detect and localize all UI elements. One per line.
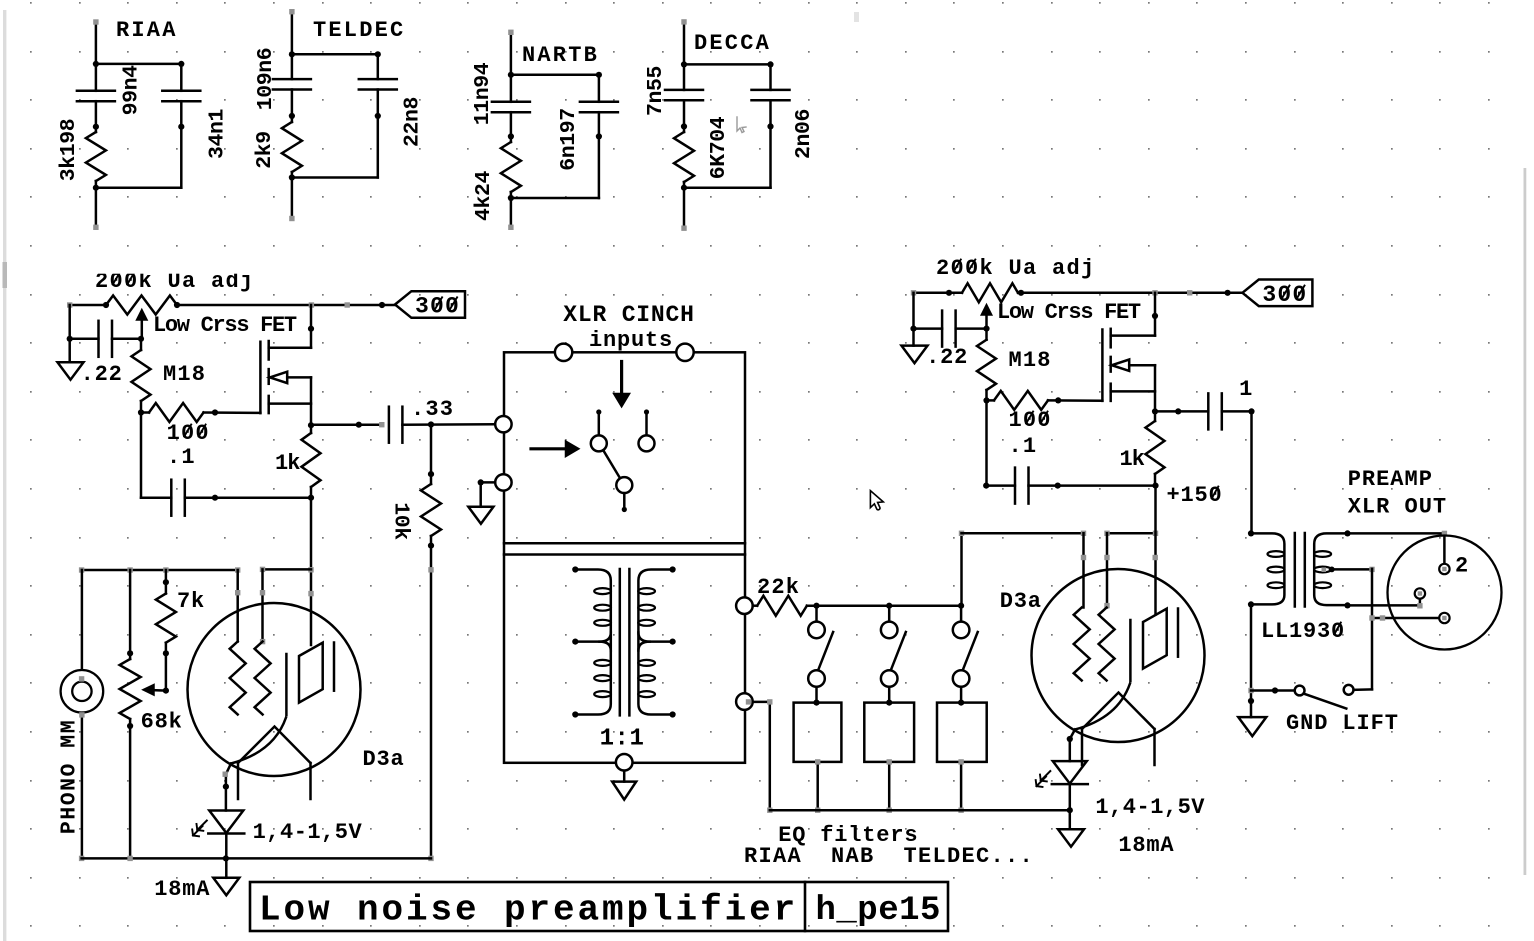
mouse cursor [870, 491, 883, 510]
wire: 22k to switch bus [807, 604, 962, 607]
resistor TELDEC (left branch) [282, 122, 302, 172]
wire: DECCA right branch down [769, 126, 772, 187]
wire: cathode lead to LED (left) [226, 764, 231, 811]
terminal right out hot [736, 597, 753, 614]
wire: EQ filter 1 to bottom bus [816, 762, 819, 810]
capacitor RIAA series (left branch) [77, 90, 115, 93]
svg-text:1,4-1,5V: 1,4-1,5V [253, 820, 363, 845]
wire: rail corner down to .22 (left) [68, 305, 71, 339]
switch common contact [616, 477, 632, 493]
wire: output column down to LL1930 [1250, 411, 1253, 533]
selector right arrow [531, 447, 568, 450]
svg-text:1,4-1,5V: 1,4-1,5V [1095, 795, 1205, 820]
switch common stub [623, 493, 626, 509]
ground (input box) [468, 507, 493, 524]
svg-text:10k: 10k [389, 502, 413, 540]
wire: enclosure bottom rail [82, 857, 431, 860]
node TELDEC bottom junction [289, 174, 295, 180]
wire: left pin2 to ground [481, 481, 496, 484]
wire: RIAA right branch down [180, 127, 183, 188]
wire: switch bus riser to grid bus [960, 533, 963, 605]
svg-text:D3a: D3a [1000, 589, 1042, 614]
wire: enclosure left edge / PHONO column upper [81, 570, 84, 670]
capacitor NARTB parallel (right branch) [580, 101, 618, 104]
capacitor TELDEC parallel (right branch) [359, 78, 397, 81]
transistor FET (right, Low Crss) [1101, 330, 1104, 401]
resistor NARTB (left branch) [501, 142, 521, 192]
svg-text:.22: .22 [81, 362, 123, 387]
svg-text:GND LIFT: GND LIFT [1286, 711, 1399, 736]
pot wiper arrow 68k [146, 689, 166, 692]
svg-text:M18: M18 [163, 362, 206, 387]
wire: gnd lift left link [1251, 689, 1295, 692]
svg-text:RIAA: RIAA [116, 18, 178, 43]
wire: enclosure top edge segment B (g3 to anode) [263, 568, 312, 571]
node DECCA bottom junction [681, 185, 687, 191]
svg-text:Low Crss FET: Low Crss FET [997, 300, 1141, 325]
pot wiper arrow (left) [141, 317, 144, 339]
title box [250, 882, 948, 931]
transformer LL1930 left winding [1251, 533, 1284, 604]
capacitor DECCA parallel (right branch) [752, 89, 790, 92]
vacuum tube D3a (right) [1032, 569, 1205, 742]
wire: LL1930 tap to gnd-lift column [1330, 568, 1372, 571]
node 1k bottom / anode (left) [308, 495, 314, 501]
svg-text:1k: 1k [275, 451, 300, 476]
wire: source to .33 cap (left) [311, 423, 382, 426]
box EQ filter 3 [937, 703, 987, 762]
wire: wiper to 7k bottom [165, 653, 168, 690]
svg-text:2n06: 2n06 [792, 109, 816, 159]
svg-text:4k24: 4k24 [472, 171, 496, 222]
svg-text:Low noise preamplifier: Low noise preamplifier [259, 890, 798, 931]
vacuum tube D3a (left) [188, 603, 361, 776]
transformer LL1930 right winding [1314, 533, 1347, 605]
potentiometer 200k (right) [962, 283, 1018, 302]
svg-text:34n1: 34n1 [206, 109, 230, 159]
wire: NARTB output stub [510, 198, 513, 227]
svg-text:22n8: 22n8 [401, 97, 425, 147]
node TELDEC top junction [289, 51, 295, 57]
wire: LL1930 bottom lead to XLR pin3 [1348, 604, 1420, 607]
pin 3 (XLR out) [1415, 588, 1425, 598]
wire: rail corner down to .22 (right) [912, 293, 915, 329]
terminal top-left (XLR) [555, 344, 572, 361]
wire: RIAA top link [96, 63, 181, 66]
wire: grid g1 lead (left tube) [236, 570, 239, 642]
wire: TELDEC output stub [291, 178, 294, 219]
capacitor TELDEC series (left branch) [273, 78, 311, 81]
wire: M18 bottom to .1 cap (right) [985, 400, 988, 485]
transformer LL1930 core [1294, 533, 1297, 607]
svg-text:.1: .1 [1009, 434, 1038, 459]
svg-text:M18: M18 [1009, 348, 1052, 373]
capacitor .22 (right) [941, 311, 944, 347]
wire: 7k column upper [165, 570, 168, 594]
transformer 1:1 core [619, 569, 622, 715]
svg-text:3k198: 3k198 [57, 119, 81, 182]
switch GND LIFT right contact [1344, 685, 1354, 695]
transistor FET (left, Low Crss) [259, 342, 262, 413]
capacitor .1 (right) [1014, 468, 1017, 504]
wire: RIAA input stub [95, 22, 98, 64]
wire: gnd-lift column corner [1354, 688, 1372, 691]
capacitor .33 (left) [388, 407, 391, 443]
wire: 68k bottom to bottom rail [129, 719, 132, 858]
svg-text:100: 100 [1009, 408, 1052, 433]
switch GND LIFT lever [1304, 694, 1347, 709]
wire: 100 to FET gate (left) [204, 411, 261, 414]
wire: 100 to FET gate (right) [1048, 399, 1102, 402]
node RIAA bottom junction [93, 185, 99, 191]
svg-text:68k: 68k [141, 710, 183, 735]
svg-text:LL1930: LL1930 [1261, 619, 1345, 644]
switch lever [603, 450, 620, 478]
diode LED 1,4-1,5V (right) [1053, 761, 1087, 784]
wire: 10k bottom down to enclosure bottom rail [430, 536, 433, 858]
resistor 100 (right) [994, 391, 1048, 410]
svg-text:XLR CINCH: XLR CINCH [563, 302, 694, 328]
pin 1 (XLR out) [1439, 613, 1449, 623]
wire: cap 1 to transformer column [1222, 410, 1252, 413]
wire: 68k column upper [129, 570, 132, 659]
wire: .33 to XLR box pin [402, 423, 495, 426]
wire: anode lead (right tube) [1154, 486, 1157, 615]
wire: grid g3 lead (right tube) [1106, 533, 1109, 607]
resistor M18 (left) [132, 350, 151, 401]
svg-text:1: 1 [1239, 377, 1253, 402]
node 1k bottom / +150 (right) [1152, 483, 1158, 489]
svg-text:22k: 22k [757, 575, 800, 600]
wire: EQ bottom bus [770, 809, 1070, 812]
wire: LED to EQ bus (right) [1069, 784, 1072, 810]
ground (left LED) [225, 858, 228, 877]
svg-text:6K704: 6K704 [707, 116, 731, 179]
switch contact right [639, 435, 655, 451]
svg-text:h_pe15: h_pe15 [816, 892, 941, 930]
svg-text:.22: .22 [926, 345, 968, 370]
wire: transformer gnd stub [623, 771, 626, 782]
switch pole stubs [598, 412, 601, 435]
wire: grid g1 lead (right tube) [1082, 533, 1085, 607]
wire: NARTB right branch down [598, 136, 601, 198]
svg-text:.33: .33 [411, 397, 454, 422]
svg-text:RIAA NAB TELDEC...: RIAA NAB TELDEC... [744, 844, 1034, 869]
svg-text:1:1: 1:1 [600, 726, 645, 753]
connector PHONO MM [61, 670, 104, 713]
net flag 300 (left) [395, 291, 465, 318]
svg-text:7n55: 7n55 [644, 66, 668, 116]
svg-text:Low Crss FET: Low Crss FET [153, 313, 297, 338]
wire: EQ filter 3 to bottom bus [960, 762, 963, 810]
ground (right .22) [912, 329, 915, 346]
transformer 1:1 left winding [575, 570, 611, 715]
potentiometer 68k [120, 659, 141, 719]
wire: anode column into tube (left) [310, 498, 313, 645]
resistor M18 (right) [977, 340, 996, 390]
svg-text:NARTB: NARTB [522, 43, 599, 68]
resistor RIAA (left branch) [86, 132, 106, 181]
wire: pot to 300 flag rail (left) [177, 304, 395, 307]
ghost cursor near DECCA [737, 117, 746, 133]
svg-text:11n94: 11n94 [471, 62, 495, 125]
wire: RIAA output stub [95, 188, 98, 228]
wire: rail left end to pot (right) [914, 292, 963, 295]
resistor 10k [421, 484, 441, 536]
wire: LL1930 bottom-left down to gnd lift [1250, 604, 1253, 717]
terminal left pin2 (gnd) [495, 474, 511, 490]
svg-text:18mA: 18mA [1118, 833, 1174, 858]
divider lines in box [504, 542, 745, 545]
wire: grid bus segment B (g3 to anode, right) [1107, 532, 1156, 535]
svg-text:TELDEC: TELDEC [313, 18, 405, 43]
terminal left pin1 (.33 input) [495, 416, 511, 432]
wire: enclosure top edge segment A (left) [82, 569, 238, 572]
pot wiper arrow (right) [985, 312, 988, 329]
diode LED 1,4-1,5V (left) [209, 811, 243, 834]
switch GND LIFT left contact [1295, 686, 1305, 696]
wire: LED to bottom rail [225, 833, 228, 858]
wire: pot to 300 flag rail (right) [1018, 292, 1242, 295]
wire: EQ filter 2 to bottom bus [888, 762, 891, 810]
wire: .33 node down to 10k [430, 425, 433, 485]
capacitor 1 (output, right) [1207, 393, 1210, 429]
box EQ filter 2 [864, 703, 914, 762]
wire: gnd-lift column [1371, 569, 1374, 690]
ground (left .22) [68, 339, 71, 362]
svg-text:6n197: 6n197 [557, 108, 581, 171]
resistor 7k [156, 594, 176, 643]
svg-text:DECCA: DECCA [694, 31, 771, 56]
svg-text:99n4: 99n4 [120, 65, 144, 116]
svg-text:XLR OUT: XLR OUT [1348, 495, 1447, 520]
wire: cathode lead to LED (right) [1070, 730, 1075, 762]
ground (right LED) [1069, 810, 1072, 829]
title divider [804, 882, 807, 931]
svg-text:PHONO MM: PHONO MM [58, 719, 82, 834]
wire: grid bus segment A (right) [962, 532, 1084, 535]
wire: source to output cap (right) [1155, 410, 1208, 413]
wire: TELDEC bottom link [292, 176, 378, 179]
svg-text:1k: 1k [1120, 447, 1145, 472]
wire: rail left end to pot [70, 304, 106, 307]
wire: RIAA bottom link [96, 186, 181, 189]
switch EQ select 3 [960, 606, 963, 622]
terminal right out gnd [736, 693, 753, 710]
ground (output) [1238, 717, 1266, 736]
wire: TELDEC input stub [291, 12, 294, 55]
wire: DECCA top link [684, 63, 771, 66]
transformer 1:1 right winding [638, 570, 672, 715]
capacitor .22 (left) [97, 321, 100, 357]
node source junction (right) [1152, 408, 1158, 414]
wire: NARTB bottom link [511, 197, 599, 200]
terminal transformer bottom (gnd) [616, 754, 633, 771]
resistor 1k (right) [1146, 421, 1165, 474]
svg-text:7k: 7k [177, 589, 205, 614]
resistor 1k (left) [302, 433, 321, 487]
potentiometer 200k (left) [106, 296, 177, 315]
node NARTB bottom junction [508, 195, 514, 201]
wire: DECCA bottom link [684, 186, 771, 189]
wire: NARTB top link [511, 74, 599, 77]
wire: TELDEC top link [292, 53, 378, 56]
node NARTB top junction [508, 72, 514, 78]
capacitor NARTB series (left branch) [492, 101, 530, 104]
resistor DECCA (left branch) [674, 132, 694, 182]
svg-text:PREAMP: PREAMP [1348, 467, 1433, 492]
node DECCA top junction [681, 61, 687, 67]
box XLR CINCH inputs [504, 352, 745, 763]
wire: grid g3 lead (left tube) [261, 569, 264, 641]
svg-text:100: 100 [167, 421, 210, 446]
svg-text:18mA: 18mA [154, 877, 210, 902]
wire: pin1 to gnd-lift column [1372, 617, 1439, 620]
ground (transformer) [612, 782, 636, 800]
svg-text:109n6: 109n6 [254, 48, 278, 111]
wire: LL1930 top lead to XLR pin2 [1348, 532, 1445, 535]
wire: M18 bottom to .1 cap (left) [140, 413, 143, 498]
connector XLR OUT circle [1388, 536, 1502, 650]
switch EQ select 2 [888, 606, 891, 622]
selector down arrow [620, 362, 623, 397]
svg-text:D3a: D3a [363, 747, 405, 772]
wire: PHONO column lower [81, 713, 84, 859]
capacitor DECCA series (left branch) [665, 89, 703, 92]
resistor 100 (left) [149, 403, 204, 422]
svg-text:2: 2 [1455, 554, 1468, 579]
wire: right out gnd to EQ bottom bus [753, 702, 770, 810]
switch contact left [591, 435, 607, 451]
resistor 22k [757, 596, 807, 616]
svg-text:.1: .1 [167, 445, 196, 470]
node RIAA top junction [93, 61, 99, 67]
wire: TELDEC right branch down [377, 116, 380, 178]
box EQ filter 1 [794, 703, 842, 762]
svg-text:2k9: 2k9 [253, 131, 277, 169]
capacitor .1 (left) [170, 480, 173, 516]
wire: DECCA output stub [683, 188, 686, 229]
net flag 300 (right) [1242, 280, 1312, 307]
switch EQ select 1 [815, 606, 818, 622]
pin 2 (XLR out) [1439, 564, 1449, 574]
wire: DECCA input stub [683, 22, 686, 65]
terminal top-right (CINCH) [676, 344, 693, 361]
capacitor RIAA parallel (right branch) [162, 90, 200, 93]
svg-text:inputs: inputs [589, 328, 673, 353]
wire: NARTB input stub [510, 32, 513, 75]
